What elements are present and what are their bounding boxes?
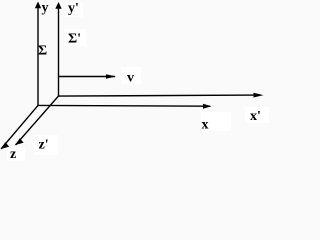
label patch Sigma' — [64, 29, 86, 46]
svg-text:Σ': Σ' — [68, 32, 81, 47]
y axis of frame Sigma — [37, 4, 39, 105]
label patch x — [201, 112, 231, 131]
arrowhead v — [106, 74, 116, 79]
x axis of frame Sigma — [38, 104, 210, 107]
svg-text:z': z' — [39, 138, 49, 153]
velocity arrow v — [59, 76, 116, 78]
label patch z' — [34, 135, 58, 155]
label patch z — [7, 148, 25, 161]
arrowhead x axis — [203, 104, 212, 109]
label patch x' — [245, 107, 269, 123]
x' axis of frame Sigma' — [59, 95, 256, 96]
arrowhead y' axis — [55, 2, 61, 9]
y' axis of frame Sigma' — [58, 5, 60, 97]
svg-text:y: y — [42, 1, 49, 16]
arrowhead x' axis — [254, 93, 264, 98]
svg-text:x': x' — [250, 109, 261, 124]
svg-text:x: x — [202, 118, 209, 133]
arrowhead z' axis — [16, 138, 24, 145]
label patch y' — [64, 2, 83, 17]
arrowhead z axis — [1, 142, 9, 149]
svg-text:v: v — [127, 71, 134, 86]
svg-text:y': y' — [68, 1, 79, 16]
svg-text:Σ: Σ — [38, 44, 47, 59]
z axis of frame Sigma — [1, 105, 38, 149]
label patch v — [121, 67, 141, 84]
z' axis of frame Sigma' — [16, 96, 59, 145]
svg-text:z: z — [10, 147, 16, 162]
arrowhead y axis — [35, 2, 41, 9]
